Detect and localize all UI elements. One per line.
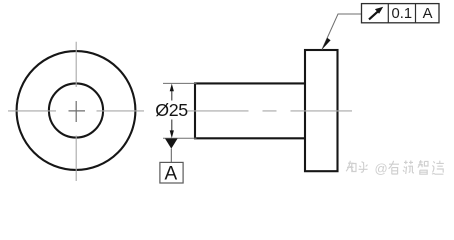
bottom extension line <box>163 137 197 139</box>
svg-text:A: A <box>165 163 178 184</box>
shaft centerline <box>187 110 352 112</box>
char zhi2 <box>418 160 428 174</box>
char fan <box>403 161 414 175</box>
datum box <box>160 162 183 183</box>
datum leader <box>170 149 172 163</box>
shaft body outline <box>195 83 305 138</box>
dimension arrow down <box>170 130 174 138</box>
svg-text:@: @ <box>375 161 388 176</box>
dimension line upper segment <box>171 90 173 101</box>
circular runout symbol <box>369 7 383 20</box>
char zhi <box>346 161 356 172</box>
svg-text:A: A <box>423 6 433 22</box>
center mark cross <box>69 101 86 122</box>
watermark 知乎 @有范智造 <box>346 160 444 176</box>
leader line to feature control frame <box>322 14 362 50</box>
vertical centerline <box>75 42 77 181</box>
char zao <box>432 161 444 175</box>
feature control frame box <box>362 4 440 23</box>
front view inner circle <box>49 83 103 137</box>
datum feature triangle <box>165 139 178 149</box>
dimension arrow up <box>170 84 174 92</box>
dimension line lower segment <box>171 120 173 133</box>
flange outline <box>305 50 338 171</box>
horizontal centerline <box>8 110 144 112</box>
svg-text:0.1: 0.1 <box>392 6 413 22</box>
front view outer circle <box>17 51 136 170</box>
frame divider 2 <box>415 4 417 23</box>
char you <box>389 161 399 174</box>
char hu <box>359 162 368 173</box>
top extension line <box>163 82 197 84</box>
leader arrowhead <box>322 38 331 50</box>
frame divider 1 <box>387 4 389 23</box>
svg-text:Ø25: Ø25 <box>155 100 188 120</box>
